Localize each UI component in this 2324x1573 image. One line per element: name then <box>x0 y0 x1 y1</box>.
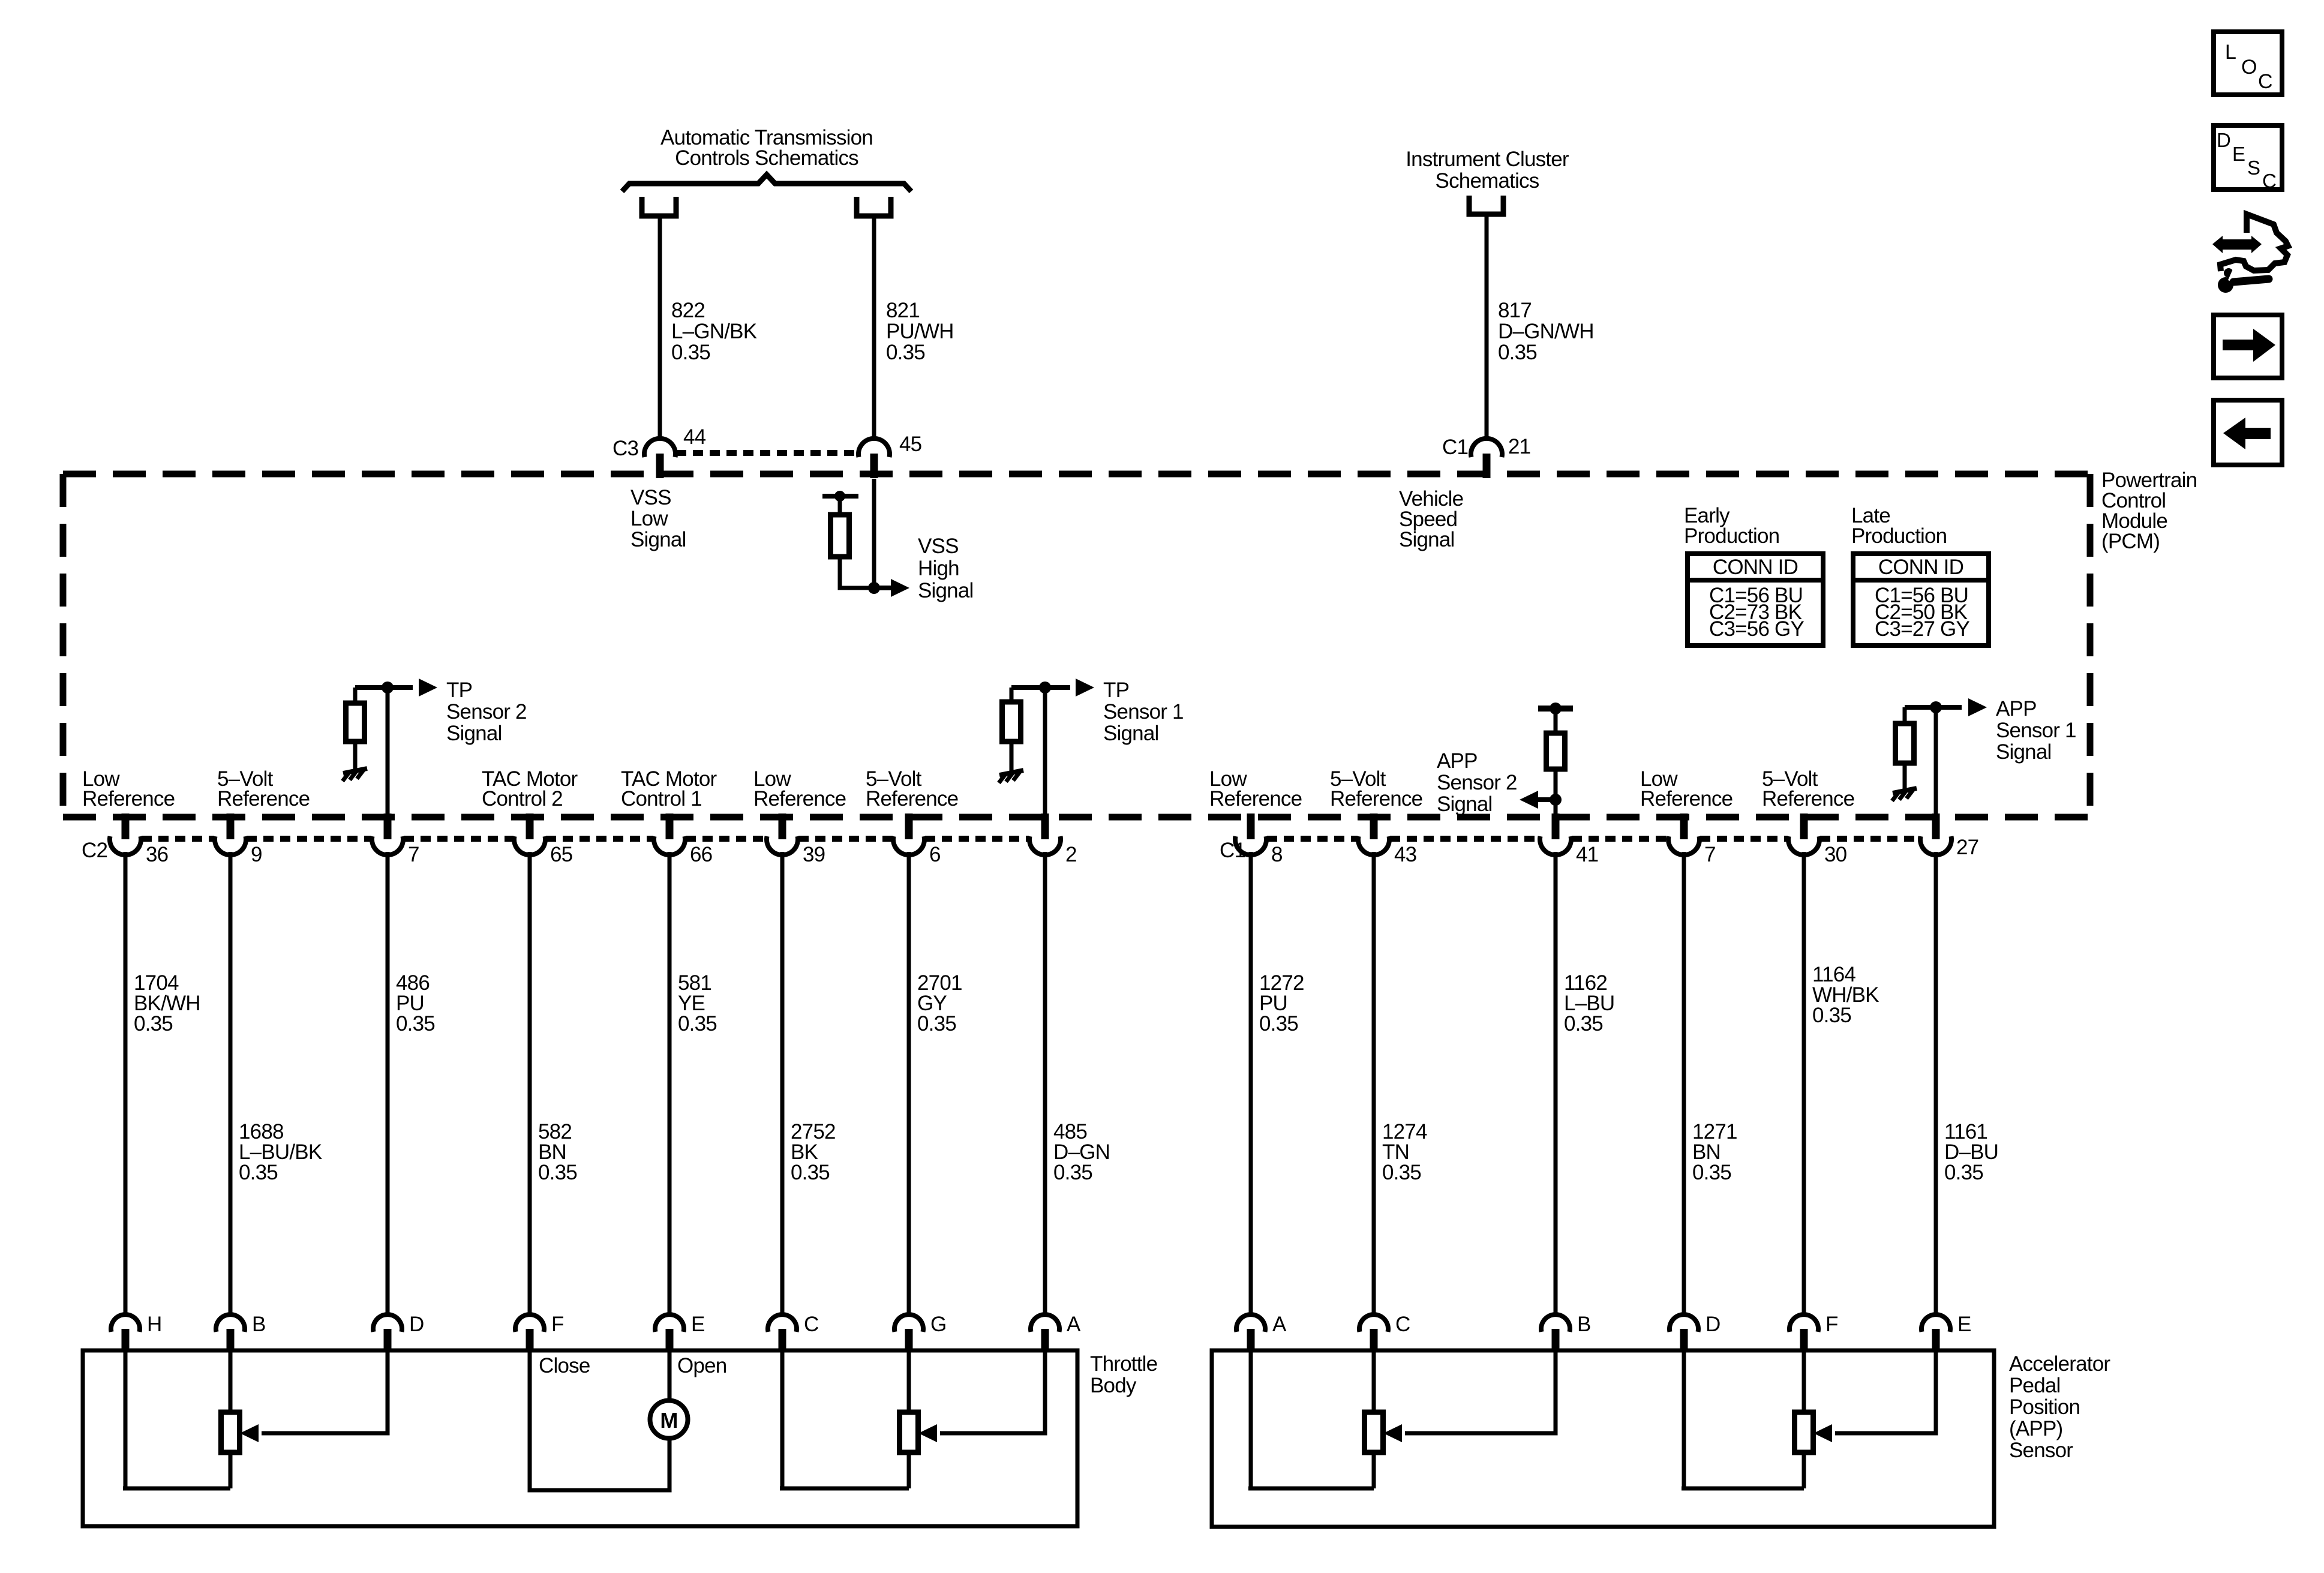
svg-text:M: M <box>660 1408 677 1433</box>
svg-text:817: 817 <box>1498 299 1532 322</box>
svg-text:0.35: 0.35 <box>1259 1012 1298 1035</box>
wire 822 L-GN/BK <box>658 216 662 440</box>
terminal E of component box <box>1921 1314 1950 1352</box>
svg-text:E: E <box>1957 1313 1971 1336</box>
svg-text:TP: TP <box>1103 679 1129 702</box>
wire 821 PU/WH <box>872 216 876 440</box>
wiper arrowhead (APP pot 2) <box>1813 1424 1832 1442</box>
label Accelerator Pedal Position (APP) Sensor <box>2009 1352 2110 1462</box>
APP Sensor 2 internal wire to pin 41 <box>1554 800 1558 839</box>
pin 43 connector <box>1358 813 1389 855</box>
svg-text:0.35: 0.35 <box>134 1012 173 1035</box>
wire APP potentiometer 2 to bottom <box>1802 1452 1806 1488</box>
svg-text:0.35: 0.35 <box>678 1012 717 1035</box>
wire E to motor <box>668 1352 672 1400</box>
Late Production CONN ID table <box>1851 504 1947 548</box>
resistor (TP sensor 2) <box>346 703 365 742</box>
svg-text:44: 44 <box>683 425 706 449</box>
off-page connector to A/T controls (left) <box>642 197 676 216</box>
pin 45 of connector C3 <box>858 439 890 478</box>
svg-text:Reference: Reference <box>217 787 310 810</box>
svg-text:821: 821 <box>886 299 920 322</box>
junction dot APP sensor 2 bar <box>1550 703 1562 715</box>
svg-text:APP: APP <box>1437 749 1478 773</box>
wire label 2701 GY 0.35 <box>917 971 962 1035</box>
label TAC Motor Control 2 (pin 65) <box>482 767 578 810</box>
label Vehicle Speed Signal <box>1399 487 1463 551</box>
wire label 1274 TN 0.35 <box>1382 1120 1427 1184</box>
svg-text:(APP): (APP) <box>2009 1417 2062 1440</box>
svg-text:C1: C1 <box>1442 436 1468 459</box>
terminal E of component box <box>655 1314 684 1352</box>
next page icon (right arrow) <box>2214 315 2282 378</box>
label Low Reference (pin 8) <box>1209 767 1302 810</box>
TP Sensor 2 internal wire <box>386 688 390 839</box>
VSS high internal wire from pin 45 <box>872 479 876 588</box>
svg-text:Reference: Reference <box>753 787 846 810</box>
wiper arrowhead (TP pot) <box>240 1424 259 1442</box>
svg-text:66: 66 <box>690 843 712 866</box>
wire A-C bottom link <box>1248 1487 1374 1491</box>
label TP Sensor 1 Signal <box>1103 679 1184 745</box>
svg-text:39: 39 <box>803 843 825 866</box>
svg-text:High: High <box>918 557 959 580</box>
wire label 581 YE 0.35 <box>678 971 717 1035</box>
svg-text:0.35: 0.35 <box>1564 1012 1603 1035</box>
svg-text:L–GN/BK: L–GN/BK <box>671 320 757 343</box>
svg-text:6: 6 <box>929 843 941 866</box>
svg-text:Pedal: Pedal <box>2009 1374 2061 1397</box>
wire from pin 36 to terminal H <box>124 852 128 1316</box>
svg-text:27: 27 <box>1956 836 1978 859</box>
pin 27 connector <box>1920 813 1951 855</box>
svg-text:VSS: VSS <box>630 486 671 509</box>
svg-text:C: C <box>804 1313 818 1336</box>
wire label 486 PU 0.35 <box>396 971 435 1035</box>
pin 66 connector <box>654 813 685 855</box>
previous page icon (left arrow) <box>2214 400 2282 465</box>
wire bar to resistor <box>838 496 842 515</box>
svg-text:Signal: Signal <box>1399 528 1455 551</box>
wire from pin 8 to terminal A <box>1249 852 1253 1316</box>
wire D inside APP box <box>1682 1352 1686 1488</box>
wire from pin 27 to terminal E <box>1934 852 1938 1316</box>
wire label 1271 BN 0.35 <box>1692 1120 1737 1184</box>
arrow VSS High Signal <box>874 586 891 590</box>
wire F to APP potentiometer 2 <box>1802 1352 1806 1413</box>
svg-text:B: B <box>1577 1313 1591 1336</box>
svg-text:0.35: 0.35 <box>396 1012 435 1035</box>
svg-text:Open: Open <box>677 1354 726 1377</box>
wire B wiper (APP) <box>1405 1352 1556 1433</box>
wire D-F bottom link <box>1682 1487 1804 1491</box>
svg-text:TP: TP <box>446 679 472 702</box>
svg-text:Low: Low <box>630 507 668 530</box>
svg-text:H: H <box>147 1313 161 1336</box>
svg-text:F: F <box>551 1313 564 1336</box>
terminal C of component box <box>768 1314 797 1352</box>
ground (TP sensor 2) <box>343 769 367 781</box>
label 5-Volt Reference (pin 30) <box>1762 767 1854 810</box>
svg-text:Body: Body <box>1090 1374 1137 1397</box>
svg-text:45: 45 <box>899 433 921 456</box>
wire label 1164 WH/BK 0.35 <box>1812 963 1879 1027</box>
label Powertrain Control Module (PCM) <box>2101 469 2197 553</box>
svg-text:0.35: 0.35 <box>886 341 925 364</box>
TP Sensor 2 tee horizontal <box>355 685 413 690</box>
junction dot on termination bar <box>834 491 845 502</box>
svg-text:Control 2: Control 2 <box>482 787 563 810</box>
svg-text:Production: Production <box>1851 524 1947 548</box>
wire potentiometer 2 to bottom <box>907 1452 911 1488</box>
svg-text:E: E <box>691 1313 705 1336</box>
terminal D of component box <box>1670 1314 1698 1352</box>
svg-text:Signal: Signal <box>1437 792 1493 816</box>
terminal C of component box <box>1359 1314 1388 1352</box>
svg-text:D–GN/WH: D–GN/WH <box>1498 320 1594 343</box>
svg-text:30: 30 <box>1824 843 1847 866</box>
label TP Sensor 2 Signal <box>446 679 527 745</box>
ground (TP sensor 1) <box>999 770 1023 783</box>
wire from pin 30 to terminal F <box>1802 852 1806 1316</box>
arrow TP Sensor 2 Signal <box>419 679 437 697</box>
svg-text:Sensor 2: Sensor 2 <box>446 700 527 724</box>
wire A inside APP box <box>1249 1352 1253 1488</box>
svg-text:Instrument Cluster: Instrument Cluster <box>1406 148 1569 171</box>
LOC icon box <box>2214 32 2282 95</box>
label APP Sensor 2 Signal <box>1437 749 1517 816</box>
label Low Reference (pin 7 C1) <box>1640 767 1733 810</box>
svg-text:Controls Schematics: Controls Schematics <box>675 146 858 170</box>
Throttle Body box <box>83 1350 1077 1526</box>
svg-text:Production: Production <box>1684 524 1779 548</box>
label 5-Volt Reference (pin 6) <box>866 767 958 810</box>
svg-text:0.35: 0.35 <box>239 1161 278 1184</box>
svg-text:APP: APP <box>1996 697 2037 721</box>
wire C inside throttle body <box>780 1352 785 1488</box>
svg-text:65: 65 <box>550 843 572 866</box>
svg-text:VSS: VSS <box>918 535 959 558</box>
svg-text:Accelerator: Accelerator <box>2009 1352 2110 1376</box>
wiper arrowhead (APP pot) <box>1383 1424 1402 1442</box>
terminal B of component box <box>1541 1314 1570 1352</box>
wire from pin 7 to terminal D <box>1682 852 1686 1316</box>
svg-text:Signal: Signal <box>918 579 974 602</box>
resistor (VSS high pull) <box>831 515 849 557</box>
brace under title <box>622 175 911 191</box>
wire C to APP potentiometer <box>1372 1352 1376 1413</box>
terminal G of component box <box>894 1314 923 1352</box>
junction dot TP Sensor 2 <box>382 682 394 694</box>
pin 7 connector <box>1668 813 1700 855</box>
wire tee to resistor <box>353 688 358 703</box>
svg-text:Reference: Reference <box>1209 787 1302 810</box>
title: Instrument Cluster Schematics <box>1406 148 1569 193</box>
svg-text:A: A <box>1272 1313 1287 1336</box>
svg-text:8: 8 <box>1271 843 1283 866</box>
svg-text:2: 2 <box>1065 843 1077 866</box>
svg-text:A: A <box>1067 1313 1081 1336</box>
wire label 582 BN 0.35 <box>538 1120 577 1184</box>
wire C-G bottom link <box>780 1487 909 1491</box>
svg-text:0.35: 0.35 <box>1053 1161 1092 1184</box>
wire from pin 39 to terminal C <box>780 852 785 1316</box>
svg-text:0.35: 0.35 <box>1812 1004 1851 1027</box>
svg-text:0.35: 0.35 <box>1692 1161 1731 1184</box>
wire resistor to junction <box>840 557 874 588</box>
dotted connector line C2 <box>142 836 214 842</box>
label APP Sensor 1 Signal <box>1996 697 2076 764</box>
svg-text:Reference: Reference <box>1330 787 1422 810</box>
wire B to potentiometer <box>229 1352 233 1413</box>
terminal F of component box <box>1789 1314 1818 1352</box>
APP Sensor 1 tee horizontal <box>1905 705 1962 710</box>
wire bar to resistor <box>1554 709 1558 733</box>
motor M circle <box>650 1401 688 1439</box>
pin 44 of connector C3 <box>644 439 675 478</box>
pin 7 connector <box>372 813 403 855</box>
repair icon: component outline <box>2220 214 2288 271</box>
VSS internal termination bar <box>822 494 858 499</box>
svg-text:C2: C2 <box>82 839 107 862</box>
pin 21 of connector C1 <box>1471 439 1502 478</box>
svg-text:43: 43 <box>1394 843 1416 866</box>
wire resistor to ground <box>353 742 358 770</box>
terminal H of component box <box>111 1314 140 1352</box>
svg-text:Sensor 1: Sensor 1 <box>1103 700 1184 724</box>
pin 2 connector <box>1029 813 1061 855</box>
PCM dashed box outline <box>63 474 2090 817</box>
svg-text:Position: Position <box>2009 1395 2080 1419</box>
svg-text:S: S <box>2247 157 2260 179</box>
wire label 1688 L–BU/BK 0.35 <box>239 1120 322 1184</box>
Accelerator Pedal Position Sensor box <box>1212 1350 1994 1527</box>
wiper arrowhead (TP pot 2) <box>918 1424 937 1442</box>
wire label 817 D-GN/WH 0.35 <box>1498 299 1594 364</box>
wire E wiper (APP) <box>1835 1352 1936 1433</box>
potentiometer TP sensor <box>221 1412 240 1452</box>
Early Production CONN ID table <box>1684 504 1779 548</box>
LOC letters <box>2225 41 2272 93</box>
svg-text:C3=27 GY: C3=27 GY <box>1875 617 1969 641</box>
svg-text:0.35: 0.35 <box>791 1161 830 1184</box>
svg-text:0.35: 0.35 <box>917 1012 956 1035</box>
pin 8 connector <box>1235 813 1266 855</box>
wire label 485 D–GN 0.35 <box>1053 1120 1110 1184</box>
wire from pin 9 to terminal B <box>229 852 233 1316</box>
label VSS High Signal <box>918 535 974 602</box>
label 5-Volt Reference (pin 43) <box>1330 767 1422 810</box>
arrow TP Sensor 1 Signal <box>1076 679 1094 697</box>
svg-text:Sensor 2: Sensor 2 <box>1437 771 1517 794</box>
terminal F of component box <box>515 1314 544 1352</box>
svg-text:(PCM): (PCM) <box>2101 530 2160 553</box>
svg-text:21: 21 <box>1508 435 1530 458</box>
resistor (APP sensor 1) <box>1896 724 1914 763</box>
pin 65 connector <box>514 813 545 855</box>
title: Automatic Transmission Controls Schematics <box>660 126 873 170</box>
wire G to potentiometer 2 <box>907 1352 911 1413</box>
arrow APP Sensor 2 Signal (left) <box>1536 797 1556 802</box>
potentiometer APP sensor 1 <box>1795 1412 1813 1452</box>
svg-text:7: 7 <box>1704 843 1716 866</box>
svg-text:0.35: 0.35 <box>1944 1161 1983 1184</box>
svg-text:Sensor 1: Sensor 1 <box>1996 719 2076 742</box>
off-page connector to A/T controls (right) <box>857 197 891 216</box>
wire D wiper <box>262 1352 388 1433</box>
potentiometer TP sensor 2 <box>900 1412 918 1452</box>
wire from pin 6 to terminal G <box>907 852 911 1316</box>
svg-text:O: O <box>2241 56 2257 79</box>
pin 6 connector <box>893 813 924 855</box>
wire from pin 65 to terminal F <box>528 852 532 1316</box>
wire tee to resistor <box>1010 688 1014 702</box>
svg-text:36: 36 <box>146 843 168 866</box>
svg-text:C3: C3 <box>612 437 638 460</box>
svg-text:Reference: Reference <box>82 787 175 810</box>
wire APP potentiometer to bottom <box>1372 1452 1376 1488</box>
svg-text:Reference: Reference <box>1640 787 1733 810</box>
dotted connector line C3 between pins 44 and 45 <box>676 450 858 456</box>
pin 36 connector <box>110 813 141 855</box>
wire H-B bottom link <box>123 1487 230 1491</box>
svg-text:Schematics: Schematics <box>1436 169 1539 193</box>
svg-text:E: E <box>2232 143 2245 165</box>
label TAC Motor Control 1 (pin 66) <box>621 767 717 810</box>
wire label 1162 L–BU 0.35 <box>1564 971 1614 1035</box>
junction dot APP Sensor 1 <box>1930 701 1942 713</box>
ground (APP sensor 1) <box>1892 788 1917 801</box>
svg-text:Throttle: Throttle <box>1090 1352 1157 1376</box>
wire label 1704 BK/WH 0.35 <box>134 971 200 1035</box>
svg-text:Close: Close <box>539 1354 590 1377</box>
wire A wiper <box>940 1352 1045 1433</box>
DESC letters <box>2217 129 2276 192</box>
label Low Reference (pin 36) <box>82 767 175 810</box>
svg-text:D: D <box>2217 129 2230 151</box>
pin 30 connector <box>1788 813 1819 855</box>
svg-text:822: 822 <box>671 299 705 322</box>
resistor (APP sensor 2) <box>1547 733 1565 769</box>
svg-text:C: C <box>2262 170 2276 192</box>
wire H inside throttle body <box>124 1352 128 1488</box>
svg-text:0.35: 0.35 <box>538 1161 577 1184</box>
junction dot APP sensor 2 <box>1550 794 1562 806</box>
wire from pin 7 to terminal D <box>386 852 390 1316</box>
wire resistor to junction <box>1554 769 1558 800</box>
svg-text:L: L <box>2225 41 2236 64</box>
wire F inside throttle body <box>530 1352 669 1490</box>
svg-text:41: 41 <box>1576 843 1598 866</box>
off-page connector to instrument cluster <box>1469 196 1503 214</box>
svg-text:CONN ID: CONN ID <box>1713 556 1798 579</box>
label 5-Volt Reference (pin 9) <box>217 767 310 810</box>
svg-text:D: D <box>409 1313 424 1336</box>
svg-text:C: C <box>1395 1313 1410 1336</box>
svg-text:Reference: Reference <box>1762 787 1854 810</box>
APP Sensor 2 termination bar <box>1538 706 1573 712</box>
label VSS Low Signal <box>630 486 686 551</box>
DESC icon box <box>2214 125 2282 190</box>
pin 9 connector <box>215 813 246 855</box>
svg-text:Reference: Reference <box>866 787 958 810</box>
svg-text:C: C <box>2258 70 2272 93</box>
svg-text:C3=56 GY: C3=56 GY <box>1709 617 1804 641</box>
wire from pin 66 to terminal E <box>668 852 672 1316</box>
wire tee to resistor <box>1903 707 1907 724</box>
pin 39 connector <box>767 813 798 855</box>
wire from pin 43 to terminal C <box>1372 852 1376 1316</box>
terminal D of component box <box>373 1314 402 1352</box>
svg-text:9: 9 <box>251 843 262 866</box>
svg-text:F: F <box>1825 1313 1838 1336</box>
potentiometer APP sensor 2 <box>1365 1412 1383 1452</box>
terminal A of component box <box>1031 1314 1059 1352</box>
svg-text:Signal: Signal <box>630 528 686 551</box>
svg-text:B: B <box>252 1313 266 1336</box>
arrow APP Sensor 1 Signal <box>1968 698 1987 716</box>
label Throttle Body <box>1090 1352 1157 1397</box>
svg-text:Control 1: Control 1 <box>621 787 702 810</box>
wire 817 D-GN/WH <box>1485 214 1489 440</box>
pin 41 connector <box>1540 813 1571 855</box>
wire potentiometer to bottom <box>229 1452 233 1488</box>
wire from pin 41 to terminal B <box>1554 852 1558 1316</box>
svg-text:0.35: 0.35 <box>1498 341 1537 364</box>
repair icon: wrench <box>2218 266 2269 293</box>
wire label 2752 BK 0.35 <box>791 1120 836 1184</box>
resistor (TP sensor 1) <box>1002 702 1021 742</box>
wire label 822 L-GN/BK 0.35 <box>671 299 757 364</box>
APP Sensor 1 internal wire <box>1934 707 1938 839</box>
label Low Reference (pin 39) <box>753 767 846 810</box>
svg-text:CONN ID: CONN ID <box>1878 556 1963 579</box>
wire label 1272 PU 0.35 <box>1259 971 1304 1035</box>
svg-text:G: G <box>930 1313 946 1336</box>
junction dot VSS high <box>868 582 880 594</box>
svg-text:Signal: Signal <box>1996 740 2052 764</box>
dotted connector line C1 (bottom) <box>1267 836 1358 842</box>
svg-text:D: D <box>1706 1313 1720 1336</box>
junction dot TP Sensor 1 <box>1039 682 1051 694</box>
svg-text:PU/WH: PU/WH <box>886 320 954 343</box>
svg-text:Sensor: Sensor <box>2009 1439 2073 1462</box>
terminal A of component box <box>1236 1314 1265 1352</box>
svg-text:Signal: Signal <box>1103 722 1159 745</box>
wire label 1161 D–BU 0.35 <box>1944 1120 1998 1184</box>
terminal B of component box <box>216 1314 245 1352</box>
svg-text:7: 7 <box>408 843 419 866</box>
svg-text:0.35: 0.35 <box>671 341 710 364</box>
TP Sensor 1 tee horizontal <box>1011 685 1070 690</box>
wire from pin 2 to terminal A <box>1043 852 1047 1316</box>
repair icon: double arrow <box>2212 236 2262 253</box>
svg-text:Signal: Signal <box>446 722 502 745</box>
svg-text:0.35: 0.35 <box>1382 1161 1421 1184</box>
wire label 821 PU/WH 0.35 <box>886 299 954 364</box>
TP Sensor 1 internal wire <box>1043 688 1047 839</box>
wire resistor to ground <box>1903 763 1907 789</box>
wire resistor to ground <box>1010 742 1014 772</box>
